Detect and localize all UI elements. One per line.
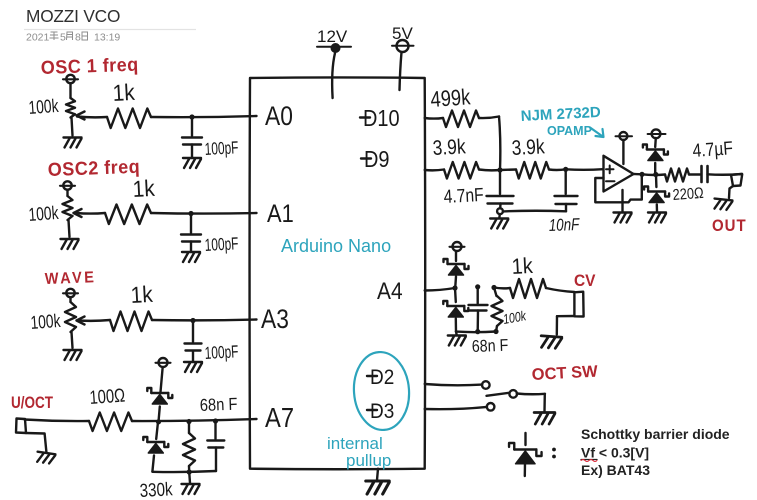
svg-text:1k: 1k: [130, 281, 154, 308]
svg-text:3.9k: 3.9k: [511, 136, 545, 160]
svg-text:A3: A3: [261, 306, 289, 335]
svg-text:A1: A1: [267, 201, 294, 229]
svg-text:OPAMP: OPAMP: [547, 124, 592, 138]
svg-text:100k: 100k: [28, 96, 60, 119]
svg-text:MOZZI VCO: MOZZI VCO: [26, 6, 120, 26]
svg-text:100k: 100k: [28, 203, 60, 226]
svg-text:100pF: 100pF: [204, 138, 239, 160]
svg-text:100k: 100k: [30, 311, 62, 334]
svg-text:100Ω: 100Ω: [89, 385, 126, 409]
svg-text:A0: A0: [265, 103, 293, 132]
svg-text:68n F: 68n F: [199, 395, 237, 416]
svg-text:2021: 2021: [26, 32, 50, 44]
svg-text:100pF: 100pF: [204, 342, 239, 364]
svg-text:OSC2 freq: OSC2 freq: [47, 155, 140, 180]
svg-text:pullup: pullup: [346, 451, 391, 470]
svg-text:Schottky barrier diode: Schottky barrier diode: [581, 426, 730, 442]
svg-text:1k: 1k: [132, 175, 156, 202]
svg-text:68n F: 68n F: [472, 337, 509, 357]
svg-text:D2: D2: [370, 366, 394, 389]
svg-text:4.7nF: 4.7nF: [443, 183, 484, 207]
svg-text:WAVE: WAVE: [45, 269, 97, 289]
svg-text:CV: CV: [574, 271, 596, 290]
svg-text:8: 8: [75, 32, 81, 44]
svg-text:4.7µF: 4.7µF: [692, 137, 734, 162]
svg-text:OSC 1 freq: OSC 1 freq: [40, 53, 139, 78]
svg-text:D3: D3: [370, 400, 394, 423]
svg-text:12V: 12V: [317, 27, 348, 46]
svg-text:10nF: 10nF: [548, 215, 580, 235]
svg-text:A4: A4: [377, 278, 403, 305]
svg-text:330k: 330k: [139, 478, 173, 500]
svg-text:Arduino Nano: Arduino Nano: [281, 236, 391, 256]
svg-text:499k: 499k: [430, 85, 472, 113]
svg-text:5: 5: [60, 32, 66, 44]
svg-text:220Ω: 220Ω: [672, 185, 704, 205]
svg-text:13:19: 13:19: [94, 32, 120, 44]
svg-text:100pF: 100pF: [204, 234, 239, 256]
svg-text:1k: 1k: [511, 254, 534, 279]
svg-text:Vf < 0.3[V]: Vf < 0.3[V]: [581, 445, 649, 461]
svg-text:Ex) BAT43: Ex) BAT43: [581, 462, 650, 478]
svg-text:U/OCT: U/OCT: [11, 395, 53, 412]
svg-text:OUT: OUT: [712, 217, 747, 235]
svg-text:1k: 1k: [112, 79, 136, 106]
svg-text:3.9k: 3.9k: [432, 136, 466, 160]
svg-text:OCT SW: OCT SW: [531, 363, 598, 384]
svg-text:A7: A7: [265, 403, 294, 433]
